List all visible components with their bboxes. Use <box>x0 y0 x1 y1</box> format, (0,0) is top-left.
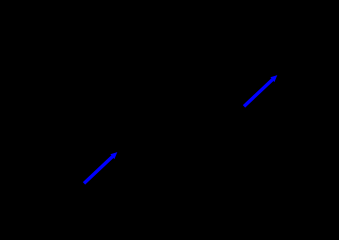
arrow 2 (upper-right, pointing up-right) <box>244 75 277 106</box>
arrow 1 (lower-left, pointing up-right) <box>84 152 117 183</box>
